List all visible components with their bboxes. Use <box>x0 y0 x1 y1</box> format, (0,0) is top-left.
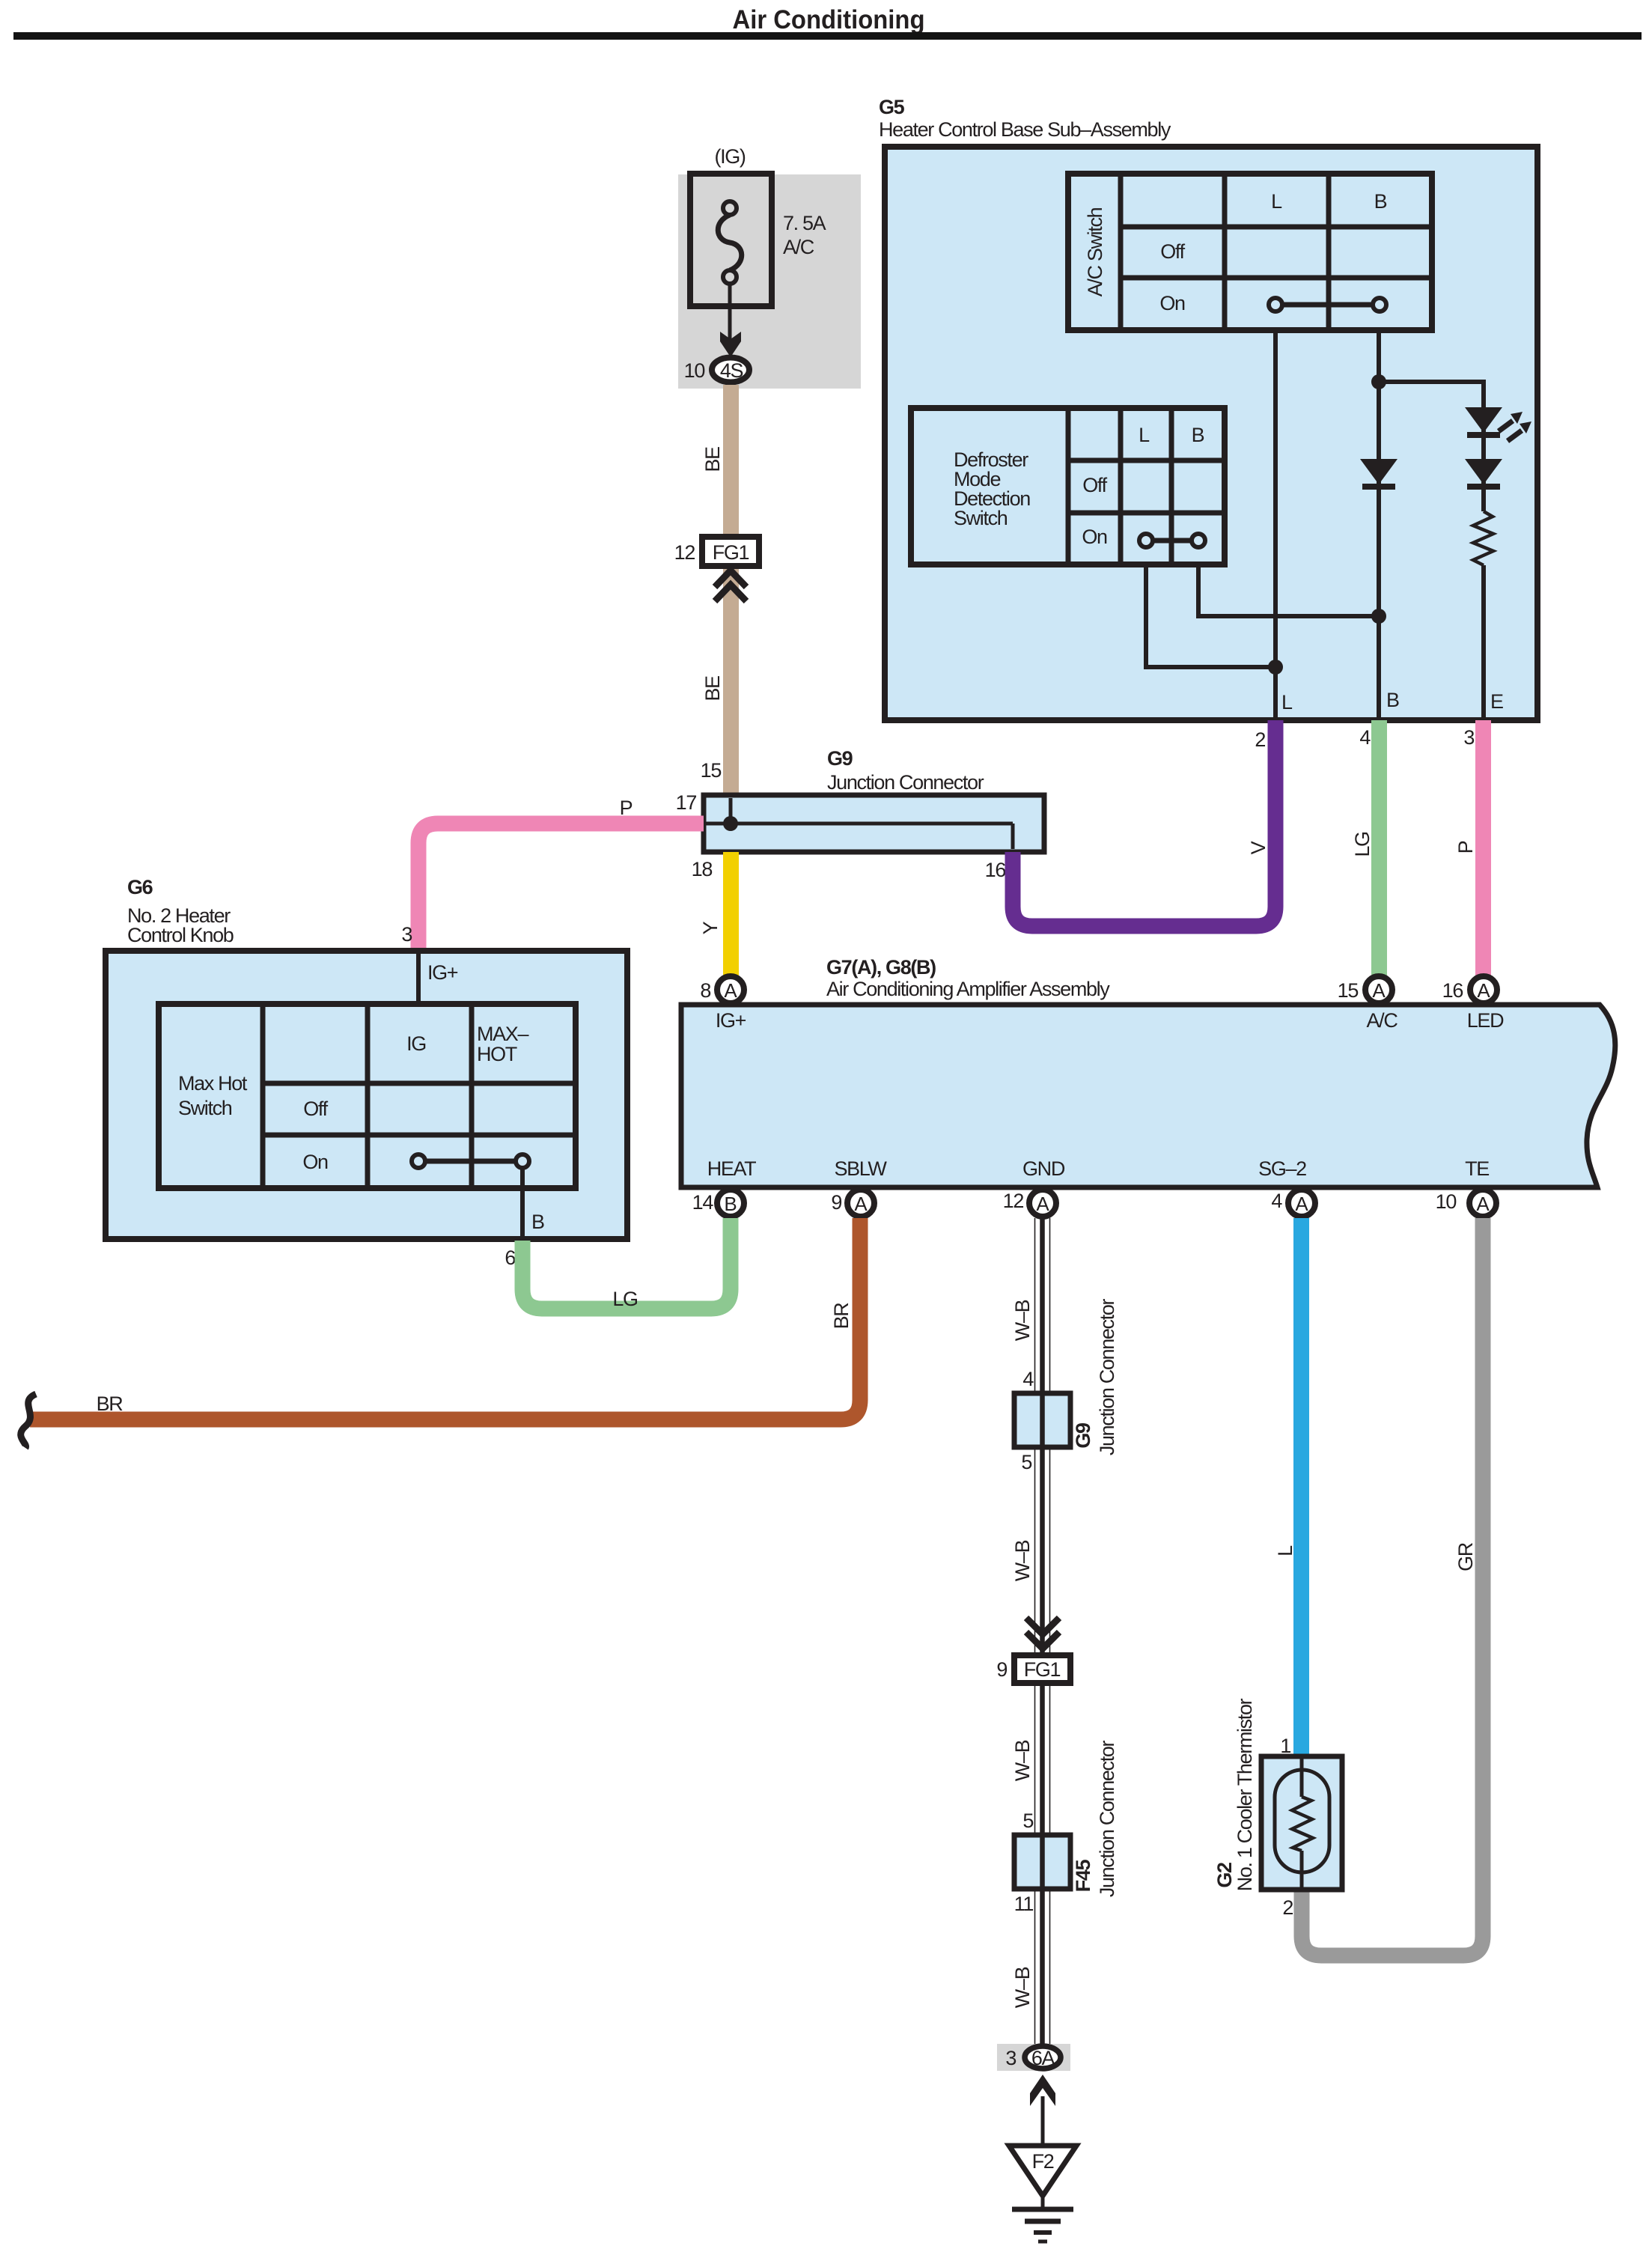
svg-text:A: A <box>1295 1193 1308 1215</box>
svg-text:W–B: W–B <box>1011 1300 1034 1341</box>
svg-text:LG: LG <box>1351 832 1374 856</box>
node B lower <box>1371 609 1386 624</box>
wire B from A/C switch <box>1377 330 1381 720</box>
thermistor lead bottom <box>1300 1851 1304 1890</box>
svg-text:Switch: Switch <box>954 507 1008 529</box>
svg-text:MAX–: MAX– <box>477 1023 528 1045</box>
wire branch to LED leg <box>1379 382 1484 511</box>
svg-text:10: 10 <box>684 359 705 382</box>
svg-text:B: B <box>1192 424 1204 446</box>
wire P G5 pin3 to amplifier pin 16 <box>1475 720 1491 977</box>
svg-text:On: On <box>302 1151 328 1173</box>
resistor <box>1473 511 1493 565</box>
chevron shield under FG1 <box>715 570 746 587</box>
svg-text:G6: G6 <box>127 876 153 898</box>
svg-text:W–B: W–B <box>1011 1967 1034 2008</box>
junction G9 box <box>1014 1393 1070 1447</box>
wire break symbol <box>21 1394 36 1448</box>
svg-text:FG1: FG1 <box>713 541 749 564</box>
svg-text:P: P <box>620 797 633 819</box>
connector FG1 lower <box>1014 1655 1070 1683</box>
Air Conditioning Amplifier Assembly box <box>681 1005 1615 1187</box>
svg-text:A: A <box>724 979 737 1002</box>
svg-text:Air Conditioning Amplifier Ass: Air Conditioning Amplifier Assembly <box>826 978 1110 1000</box>
node 17/15 junction <box>723 816 738 831</box>
svg-text:Switch: Switch <box>178 1097 232 1119</box>
svg-text:B: B <box>1386 689 1399 711</box>
svg-text:3: 3 <box>1005 2047 1016 2069</box>
svg-text:HOT: HOT <box>477 1043 517 1065</box>
svg-text:W–B: W–B <box>1011 1540 1034 1581</box>
wire BE upper <box>723 385 739 795</box>
svg-text:GR: GR <box>1454 1542 1477 1571</box>
svg-text:F45: F45 <box>1072 1859 1094 1892</box>
wire fuse to connector 4S <box>728 284 732 344</box>
svg-text:Heater Control Base Sub–Assemb: Heater Control Base Sub–Assembly <box>879 118 1171 141</box>
thermistor lead top <box>1300 1756 1304 1797</box>
svg-text:5: 5 <box>1021 1451 1031 1473</box>
wire BR from amplifier pin 9 <box>30 1218 860 1419</box>
G5 Heater Control Base Sub-Assembly box <box>885 147 1537 720</box>
svg-text:6A: 6A <box>1031 2047 1055 2069</box>
svg-text:6: 6 <box>505 1247 515 1269</box>
svg-text:A/C: A/C <box>783 236 814 258</box>
svg-text:Off: Off <box>303 1098 328 1120</box>
connector 4S <box>712 358 749 383</box>
svg-text:2: 2 <box>1282 1896 1293 1919</box>
Max Hot contact <box>424 1159 516 1164</box>
Max Hot switch table <box>159 1004 576 1188</box>
svg-text:A: A <box>1477 979 1490 1002</box>
ground symbol <box>1041 2196 1045 2209</box>
diode D3 on B wire <box>1360 459 1398 484</box>
svg-text:BE: BE <box>701 676 724 702</box>
svg-text:B: B <box>1374 190 1387 213</box>
svg-text:15: 15 <box>1338 979 1359 1002</box>
svg-text:IG+: IG+ <box>427 961 458 984</box>
wire defroster L to L wire <box>1146 564 1275 667</box>
svg-text:IG: IG <box>406 1032 426 1055</box>
svg-text:V: V <box>1247 841 1270 854</box>
svg-text:W–B: W–B <box>1011 1740 1034 1781</box>
svg-text:On: On <box>1082 526 1107 548</box>
svg-text:IG+: IG+ <box>716 1009 746 1032</box>
wire IG+ entry <box>416 951 421 1004</box>
G2 thermistor box <box>1261 1756 1342 1890</box>
wire GR thermistor to amplifier pin 10 <box>1302 1218 1483 1956</box>
svg-text:G7(A), G8(B): G7(A), G8(B) <box>826 956 936 979</box>
wire L amplifier pin 4 to thermistor <box>1293 1218 1309 1756</box>
svg-text:G2: G2 <box>1213 1863 1236 1888</box>
svg-text:A: A <box>1036 1193 1049 1215</box>
svg-text:9: 9 <box>996 1658 1007 1681</box>
svg-text:14: 14 <box>692 1191 714 1214</box>
title rule <box>13 32 1642 40</box>
fuse box outline <box>690 174 772 306</box>
LED D1 <box>1465 407 1502 433</box>
svg-text:E: E <box>1490 690 1503 713</box>
A/C switch contact <box>1281 302 1374 308</box>
A/C switch table <box>1068 174 1432 330</box>
svg-text:Junction Connector: Junction Connector <box>1096 1740 1118 1897</box>
thermistor capsule <box>1275 1770 1329 1872</box>
svg-text:LG: LG <box>612 1288 637 1310</box>
svg-text:BE: BE <box>701 447 724 472</box>
svg-text:4S: 4S <box>720 359 743 382</box>
wire V G9 pin16 to G5 pin 2 <box>1013 720 1275 926</box>
svg-text:A: A <box>854 1193 868 1215</box>
svg-text:On: On <box>1159 292 1185 314</box>
wire LG G6 pin6 to amplifier pin 14 <box>522 1218 731 1309</box>
arrow up <box>1030 2075 1055 2106</box>
LED leg wire lower <box>1481 565 1486 720</box>
svg-text:8: 8 <box>700 979 710 1002</box>
svg-text:GND: GND <box>1022 1157 1065 1180</box>
svg-text:SG–2: SG–2 <box>1258 1157 1306 1180</box>
wire to ground <box>1041 2096 1045 2146</box>
svg-text:Junction Connector: Junction Connector <box>827 771 984 794</box>
G6 No.2 Heater Control Knob box <box>106 951 627 1239</box>
svg-text:P: P <box>1454 841 1477 853</box>
connector 6A gray strip <box>997 2044 1070 2071</box>
svg-text:2: 2 <box>1255 728 1265 751</box>
svg-text:B: B <box>531 1211 544 1233</box>
wire B exit <box>520 1168 525 1239</box>
defroster contact <box>1152 538 1192 544</box>
inner bus wire <box>706 798 1013 849</box>
wire P to G6 <box>418 824 704 951</box>
svg-text:18: 18 <box>692 858 713 880</box>
svg-text:G9: G9 <box>1072 1422 1094 1449</box>
svg-text:(IG): (IG) <box>714 145 745 168</box>
svg-text:SBLW: SBLW <box>834 1157 887 1180</box>
svg-text:16: 16 <box>985 859 1006 881</box>
svg-text:BR: BR <box>97 1393 124 1415</box>
svg-text:F2: F2 <box>1032 2150 1054 2173</box>
svg-text:Junction Connector: Junction Connector <box>1096 1298 1118 1455</box>
svg-text:11: 11 <box>1014 1893 1034 1915</box>
svg-text:G9: G9 <box>827 747 853 770</box>
svg-text:15: 15 <box>701 759 722 782</box>
svg-text:Off: Off <box>1082 474 1107 496</box>
svg-text:No. 1 Cooler Thermistor: No. 1 Cooler Thermistor <box>1234 1698 1256 1891</box>
diode D2 on LED leg <box>1465 459 1502 484</box>
svg-text:3: 3 <box>401 923 412 946</box>
svg-text:LED: LED <box>1467 1009 1504 1032</box>
svg-text:7. 5A: 7. 5A <box>783 212 826 234</box>
svg-text:12: 12 <box>1003 1190 1024 1212</box>
Defroster Mode Detection Switch table <box>911 408 1225 564</box>
ground F2 triangle <box>1009 2146 1076 2196</box>
svg-text:Y: Y <box>699 921 722 934</box>
svg-text:17: 17 <box>676 791 697 814</box>
svg-text:L: L <box>1274 1545 1296 1556</box>
svg-text:HEAT: HEAT <box>707 1157 756 1180</box>
svg-text:B: B <box>724 1193 737 1215</box>
svg-text:A: A <box>1372 979 1386 1002</box>
svg-text:A: A <box>1476 1193 1490 1215</box>
svg-text:BR: BR <box>830 1303 853 1330</box>
svg-text:16: 16 <box>1442 979 1463 1002</box>
wire defroster B to B wire <box>1198 564 1379 616</box>
wire W-B from amplifier pin 12 <box>1034 1218 1036 2046</box>
arrow into 4S <box>720 332 741 357</box>
svg-text:Air Conditioning: Air Conditioning <box>733 5 925 34</box>
connector 6A <box>1025 2046 1061 2069</box>
connector FG1 <box>702 537 759 566</box>
junction F45 box <box>1014 1835 1070 1889</box>
wire Y to amplifier pin 8 <box>723 852 739 978</box>
svg-text:3: 3 <box>1463 726 1474 749</box>
svg-text:Off: Off <box>1160 240 1185 263</box>
svg-text:A/C: A/C <box>1367 1009 1398 1032</box>
thermistor resistor <box>1292 1797 1313 1851</box>
svg-text:FG1: FG1 <box>1024 1658 1061 1681</box>
wire L from A/C switch to G5 pin 2 <box>1273 330 1278 720</box>
wire LG G5 pin4 to amplifier pin 15 <box>1371 720 1387 977</box>
chevron shield down <box>1026 1618 1059 1634</box>
svg-text:TE: TE <box>1465 1157 1489 1180</box>
svg-text:10: 10 <box>1436 1190 1457 1213</box>
G9 junction connector bar <box>704 795 1044 852</box>
svg-text:4: 4 <box>1359 726 1371 749</box>
svg-text:L: L <box>1271 190 1282 213</box>
svg-text:5: 5 <box>1022 1810 1033 1832</box>
svg-text:4: 4 <box>1022 1368 1034 1390</box>
svg-text:9: 9 <box>831 1191 841 1214</box>
node on B wire <box>1371 374 1386 389</box>
svg-text:L: L <box>1139 424 1150 446</box>
svg-text:L: L <box>1281 691 1293 713</box>
svg-text:Control Knob: Control Knob <box>127 924 234 946</box>
svg-text:12: 12 <box>674 541 695 564</box>
svg-text:4: 4 <box>1271 1190 1282 1212</box>
node on L wire <box>1268 660 1283 675</box>
fuse block gray background <box>678 174 861 389</box>
fuse 7.5A A/C symbol <box>718 215 742 270</box>
svg-text:Max Hot: Max Hot <box>178 1072 248 1095</box>
svg-text:A/C Switch: A/C Switch <box>1084 207 1106 296</box>
LED light arrows <box>1499 412 1523 431</box>
svg-text:G5: G5 <box>879 96 905 118</box>
